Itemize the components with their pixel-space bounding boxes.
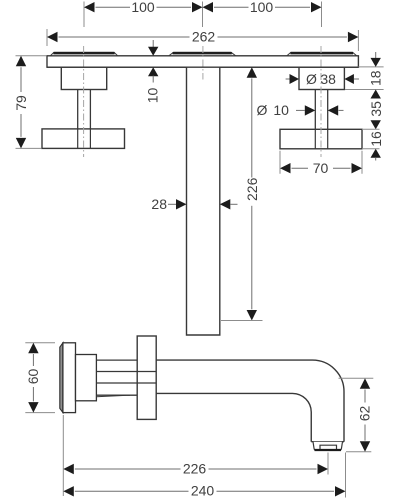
- svg-text:Ø10: Ø10: [257, 102, 290, 118]
- svg-text:35: 35: [368, 101, 384, 117]
- svg-text:100: 100: [131, 0, 155, 15]
- right handle bar: [280, 129, 362, 149]
- spout blade: [187, 67, 220, 335]
- handle side view: [137, 336, 156, 419]
- dim 226 front: [221, 67, 263, 320]
- svg-text:70: 70: [313, 160, 329, 176]
- flange body: [63, 343, 76, 413]
- svg-text:10: 10: [145, 88, 161, 104]
- dim diameter 38: [286, 71, 359, 87]
- right stem lines through handle: [315, 129, 327, 149]
- center rosette trapezoid: [169, 52, 236, 55]
- svg-text:18: 18: [367, 70, 383, 86]
- svg-text:226: 226: [183, 460, 207, 476]
- dim 18: [345, 52, 384, 99]
- dim 16: [362, 131, 384, 160]
- right rosette trapezoid: [287, 52, 357, 55]
- left stem lines through handle: [78, 129, 91, 149]
- svg-text:100: 100: [250, 0, 274, 15]
- escutcheon cylinder: [76, 355, 97, 401]
- spout pipe side view: [156, 360, 344, 442]
- left centerline: [83, 46, 85, 157]
- flange chamfer: [60, 343, 63, 413]
- left handle stem: [78, 90, 91, 149]
- svg-text:226: 226: [244, 177, 260, 201]
- wall plate: [47, 56, 358, 67]
- stem lines crossing handle: [96, 372, 156, 384]
- svg-text:28: 28: [151, 196, 167, 212]
- svg-text:60: 60: [25, 369, 41, 385]
- right handle stem: [315, 90, 327, 149]
- dim 100 right: [203, 0, 322, 27]
- stem and pipe lines to handle: [96, 360, 137, 395]
- wedge line: [96, 395, 130, 397]
- dim 28 spout width: [151, 196, 237, 212]
- svg-text:79: 79: [13, 95, 29, 111]
- dim 70: [280, 151, 362, 176]
- svg-text:62: 62: [357, 406, 373, 422]
- svg-text:16: 16: [368, 131, 384, 147]
- dim 262: [47, 29, 358, 52]
- dim diameter 10: [257, 102, 344, 118]
- dim 79: [13, 56, 46, 149]
- dim 62: [339, 378, 374, 452]
- dim 240 side: [63, 453, 345, 499]
- left handle bar: [42, 129, 125, 149]
- left valve block: [61, 67, 106, 89]
- dim 60: [25, 343, 55, 413]
- dim 35: [362, 101, 384, 129]
- svg-text:240: 240: [191, 483, 215, 499]
- svg-text:Ø38: Ø38: [306, 71, 336, 87]
- svg-text:262: 262: [192, 29, 216, 45]
- dim 100 left: [84, 0, 203, 27]
- dim 226 side: [63, 415, 328, 496]
- plate bottom edge overlay: [47, 66, 358, 68]
- right valve block: [299, 67, 344, 89]
- spout centerline: [202, 46, 204, 80]
- aerator tip: [313, 442, 343, 451]
- dim 10 plate thickness: [145, 40, 161, 103]
- left rosette trapezoid: [51, 52, 118, 55]
- right centerline: [320, 46, 322, 157]
